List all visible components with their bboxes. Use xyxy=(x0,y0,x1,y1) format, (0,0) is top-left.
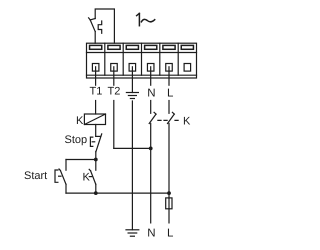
label K main contacts xyxy=(183,116,191,128)
terminal block divider 2-3 xyxy=(122,43,124,75)
label T1 xyxy=(90,86,103,98)
terminal 2 clamp xyxy=(111,64,118,72)
contactor coil K box xyxy=(84,114,105,125)
wire holding contact to bottom rail xyxy=(95,184,97,193)
wire L lower xyxy=(168,123,170,198)
contact K pole N blade xyxy=(149,114,156,123)
svg-text:T2: T2 xyxy=(108,86,121,98)
terminal 4 clamp xyxy=(147,64,154,72)
terminal 3 clamp xyxy=(129,64,136,72)
terminal block divider 4-5 xyxy=(159,43,161,75)
terminal block divider 1-2 xyxy=(104,43,106,75)
terminal 5 top slot xyxy=(163,45,175,49)
terminal block lower shelf line xyxy=(87,74,197,76)
wire stop to junction xyxy=(95,152,97,160)
node junction holding contact on bottom rail xyxy=(94,191,98,195)
contact K pole L blade tick xyxy=(172,112,174,114)
contact K pole L blade xyxy=(168,114,175,123)
thermal switch blade xyxy=(90,20,95,32)
label K holding contact xyxy=(83,172,91,184)
label Start xyxy=(24,170,47,182)
thermal switch enclosure top line xyxy=(95,9,114,43)
svg-text:L: L xyxy=(167,228,174,240)
svg-text:T1: T1 xyxy=(90,86,103,98)
label K coil xyxy=(76,115,84,127)
wire L through clamp xyxy=(168,67,170,85)
svg-text:K: K xyxy=(83,172,91,184)
wire start branch drop xyxy=(65,160,67,171)
label L under block xyxy=(167,88,174,100)
contact K pole N blade tick xyxy=(154,112,156,114)
wire N upper xyxy=(150,101,152,114)
label Stop xyxy=(65,134,88,146)
stop contact blade xyxy=(96,134,102,152)
svg-text:L: L xyxy=(167,88,174,100)
stop button actuator link dash xyxy=(92,141,95,143)
wire junction to holding contact xyxy=(95,160,97,171)
terminal block outer body xyxy=(87,43,197,78)
fuse body xyxy=(166,198,172,209)
svg-text:Stop: Stop xyxy=(65,134,88,146)
svg-text:N: N xyxy=(147,228,155,240)
supply earth symbol xyxy=(126,229,139,231)
wire L below fuse xyxy=(168,209,170,223)
terminal block divider 3-4 xyxy=(141,43,143,75)
terminal 6 top slot xyxy=(181,45,193,49)
node junction T2-N xyxy=(149,147,153,151)
svg-text:Start: Start xyxy=(24,170,47,182)
svg-text:K: K xyxy=(183,116,191,128)
contactor coil K diagonal xyxy=(84,114,105,125)
wire T2 through clamp xyxy=(113,67,115,85)
terminal 6 clamp xyxy=(184,64,191,72)
wire PE through clamp xyxy=(131,67,133,93)
wire junction horizontal to start branch xyxy=(66,159,96,161)
label T2 xyxy=(108,86,121,98)
wire N through clamp xyxy=(150,67,152,85)
node junction below stop xyxy=(94,158,98,162)
terminal 2 top slot xyxy=(108,45,120,49)
label 1~ single phase xyxy=(138,14,140,26)
start contact blade tick xyxy=(59,169,60,171)
stop contact fixed terminal bar xyxy=(96,135,101,137)
earth label symbol under terminal 3 xyxy=(126,92,138,94)
start button actuator bracket xyxy=(55,170,58,182)
contact K mechanical link dashes xyxy=(158,119,178,121)
wire start to bottom rail xyxy=(65,184,67,193)
terminal 5 clamp xyxy=(166,64,173,72)
holding contact blade tick xyxy=(89,169,90,171)
label N under block xyxy=(147,88,155,100)
start button actuator link dash xyxy=(59,175,61,177)
thermal switch blade tick xyxy=(89,18,91,20)
label L supply xyxy=(167,228,174,240)
holding contact blade xyxy=(91,171,96,185)
terminal block upper shelf line xyxy=(87,52,197,54)
wire coil to stop contact xyxy=(95,125,97,137)
wire N lower xyxy=(150,123,152,222)
terminal 1 top slot xyxy=(90,45,102,49)
label N supply xyxy=(147,228,155,240)
wire L upper xyxy=(168,101,170,114)
wire through fuse xyxy=(168,198,170,209)
thermal switch fixed terminal tick xyxy=(90,19,95,20)
thermal element zigzag xyxy=(98,21,102,33)
wire T1 to contactor coil xyxy=(95,101,97,115)
wire T2 down xyxy=(113,101,115,149)
holding contact link dash xyxy=(89,176,91,178)
wire PE down to supply earth xyxy=(131,101,133,230)
svg-text:N: N xyxy=(147,88,155,100)
terminal 3 top slot xyxy=(126,45,138,49)
start contact blade xyxy=(60,171,66,185)
thermal switch lower lead into T1 xyxy=(94,32,96,44)
terminal block divider 5-6 xyxy=(177,43,179,75)
wire T1 through clamp xyxy=(95,67,97,85)
node junction control rail to L xyxy=(167,191,171,195)
wire T2 link to N xyxy=(114,147,151,149)
terminal 1 clamp xyxy=(92,64,99,72)
terminal 4 top slot xyxy=(145,45,157,49)
stop button actuator bracket xyxy=(90,137,92,146)
svg-text:K: K xyxy=(76,115,84,127)
wire bottom control rail xyxy=(66,192,169,194)
